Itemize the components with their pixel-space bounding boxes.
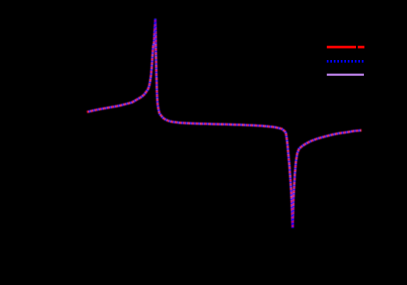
curve trace 3: blue dotted xyxy=(87,19,362,228)
legend key: red dashed sample line xyxy=(327,46,365,49)
curve trace 1: violet solid (underlay) xyxy=(87,19,362,228)
curve trace 2: red dashed xyxy=(87,19,362,228)
legend key: violet solid sample line xyxy=(327,74,364,76)
legend key: blue dotted sample line xyxy=(327,60,364,63)
